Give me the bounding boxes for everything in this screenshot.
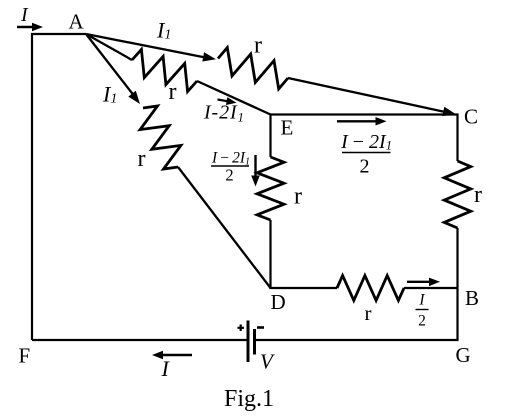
svg-text:I: I <box>418 292 425 309</box>
resistor R2 (middle r) <box>132 49 197 91</box>
resistor R1 (top r) <box>218 48 288 89</box>
wire resistor down to D <box>269 220 271 289</box>
svg-text:I: I <box>20 4 29 26</box>
arrowhead into node C <box>442 107 456 116</box>
wire E to C <box>271 113 459 115</box>
wire G up to B <box>456 288 458 341</box>
battery V positive plate (long) <box>247 321 250 363</box>
wire A toward R3 (current I1 arrow) <box>86 34 135 97</box>
wire E down to resistor <box>269 115 271 158</box>
svg-text:r: r <box>169 79 177 105</box>
svg-text:D: D <box>271 290 286 314</box>
wire B up to resistor <box>456 228 458 288</box>
arrowhead I1 into R3 <box>128 91 140 104</box>
svg-text:2: 2 <box>360 156 370 178</box>
wire D to resistor <box>270 287 338 289</box>
wire F to battery <box>32 339 247 341</box>
wire A toward R1 (current I1 arrow) <box>86 34 211 59</box>
svg-text:I − 2I1: I − 2I1 <box>340 131 392 153</box>
wire resistor up to C <box>456 114 458 162</box>
svg-text:r: r <box>254 33 262 59</box>
wire A to R2 <box>86 34 132 60</box>
resistor R4 (r between E and D) <box>257 157 284 220</box>
svg-text:Fig.1: Fig.1 <box>224 386 274 412</box>
svg-text:r: r <box>474 182 482 208</box>
arrow current I/2 near B <box>407 281 431 283</box>
svg-text:B: B <box>465 286 479 310</box>
arrowhead I1 into R1 <box>202 52 216 61</box>
wire R1 to C <box>288 78 448 113</box>
svg-text:r: r <box>138 146 146 172</box>
wire R2 to E (current I-2I1) <box>197 81 271 115</box>
fraction bar I/2 <box>416 309 429 311</box>
resistor R6 (r between D and B) <box>337 276 404 301</box>
wire R3 to D <box>178 167 271 288</box>
svg-text:2: 2 <box>418 313 426 330</box>
resistor R5 (r between C and B) <box>444 161 471 228</box>
battery minus sign <box>257 326 264 329</box>
svg-text:A: A <box>69 10 85 34</box>
resistor R3 (left diagonal r) <box>140 106 181 169</box>
svg-text:r: r <box>294 184 302 210</box>
svg-text:r: r <box>365 301 372 325</box>
arrow (I-2I1)/2 on wire E-C <box>337 120 377 122</box>
arrow current I bottom (pointing left) <box>161 354 192 356</box>
wire A to left corner and down to F <box>32 34 86 340</box>
svg-text:G: G <box>456 343 471 367</box>
fraction bar small <box>211 165 249 167</box>
svg-text:F: F <box>19 344 31 368</box>
battery V negative plate (short) <box>253 329 256 355</box>
arrow current I-2I1 small (above label) <box>218 100 229 102</box>
svg-text:V: V <box>260 350 275 374</box>
fraction bar big <box>342 152 391 154</box>
svg-text:2: 2 <box>225 166 233 185</box>
wire resistor to B <box>404 287 459 289</box>
svg-text:E: E <box>281 116 294 140</box>
wire battery to G <box>256 339 459 341</box>
battery plus sign <box>238 325 245 332</box>
svg-text:C: C <box>464 105 478 129</box>
arrow down into resistor R4 <box>254 155 256 178</box>
arrow current I entering at top left <box>17 26 35 28</box>
